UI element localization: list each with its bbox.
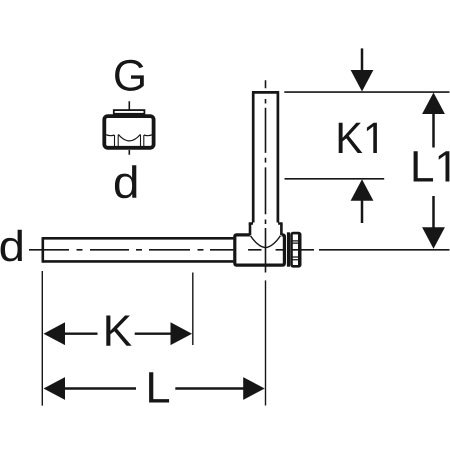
union nut facet edges: [115, 135, 144, 147]
L1 dimension top arrow: [432, 113, 435, 148]
tee collar top edges: [249, 222, 283, 225]
nut inner vertical edge: [298, 234, 300, 267]
label d (left of pipe): [1, 230, 22, 262]
left extension line: [41, 271, 43, 406]
label K1: [339, 123, 377, 153]
L left arrow: [44, 377, 66, 400]
nut neck band: [287, 232, 290, 266]
label G: [115, 60, 144, 91]
K1 dimension bottom arrow: [361, 200, 364, 223]
union nut symbol centerline: [128, 101, 130, 155]
vertical extension line (L right / centerline continuation): [265, 280, 267, 405]
label K: [106, 316, 131, 346]
label L: [149, 372, 169, 402]
horizontal centerline (pipe axis): [29, 249, 314, 251]
union nut body: [104, 116, 153, 148]
union nut facet arcs: [105, 134, 154, 141]
L dimension line: [64, 387, 244, 389]
K1 lower reference line: [285, 178, 385, 180]
K dimension line: [64, 333, 171, 335]
union nut collar: [114, 110, 145, 114]
K left arrow: [44, 322, 66, 345]
horizontal pipe left cap: [41, 237, 44, 263]
vertical pipe top cap: [252, 91, 279, 94]
vertical centerline (pipe axis): [265, 80, 267, 272]
nut knurl lines: [291, 241, 298, 260]
L1 dimension bottom arrow: [432, 196, 435, 228]
tee collar sides: [250, 224, 281, 236]
nut body (right): [292, 233, 301, 266]
funnel arcs inside tee: [250, 236, 280, 248]
vertical pipe walls: [253, 94, 278, 223]
K1 dimension top arrow: [361, 48, 364, 71]
L right arrow: [243, 377, 265, 400]
bottom right extension line: [319, 249, 450, 251]
label L1: [414, 151, 450, 181]
middle extension line (K right): [192, 273, 194, 346]
tee body: [235, 235, 285, 265]
K right arrow: [171, 322, 193, 345]
label d (under nut): [115, 165, 136, 198]
horizontal pipe walls: [43, 238, 234, 261]
top extension line: [284, 91, 449, 93]
